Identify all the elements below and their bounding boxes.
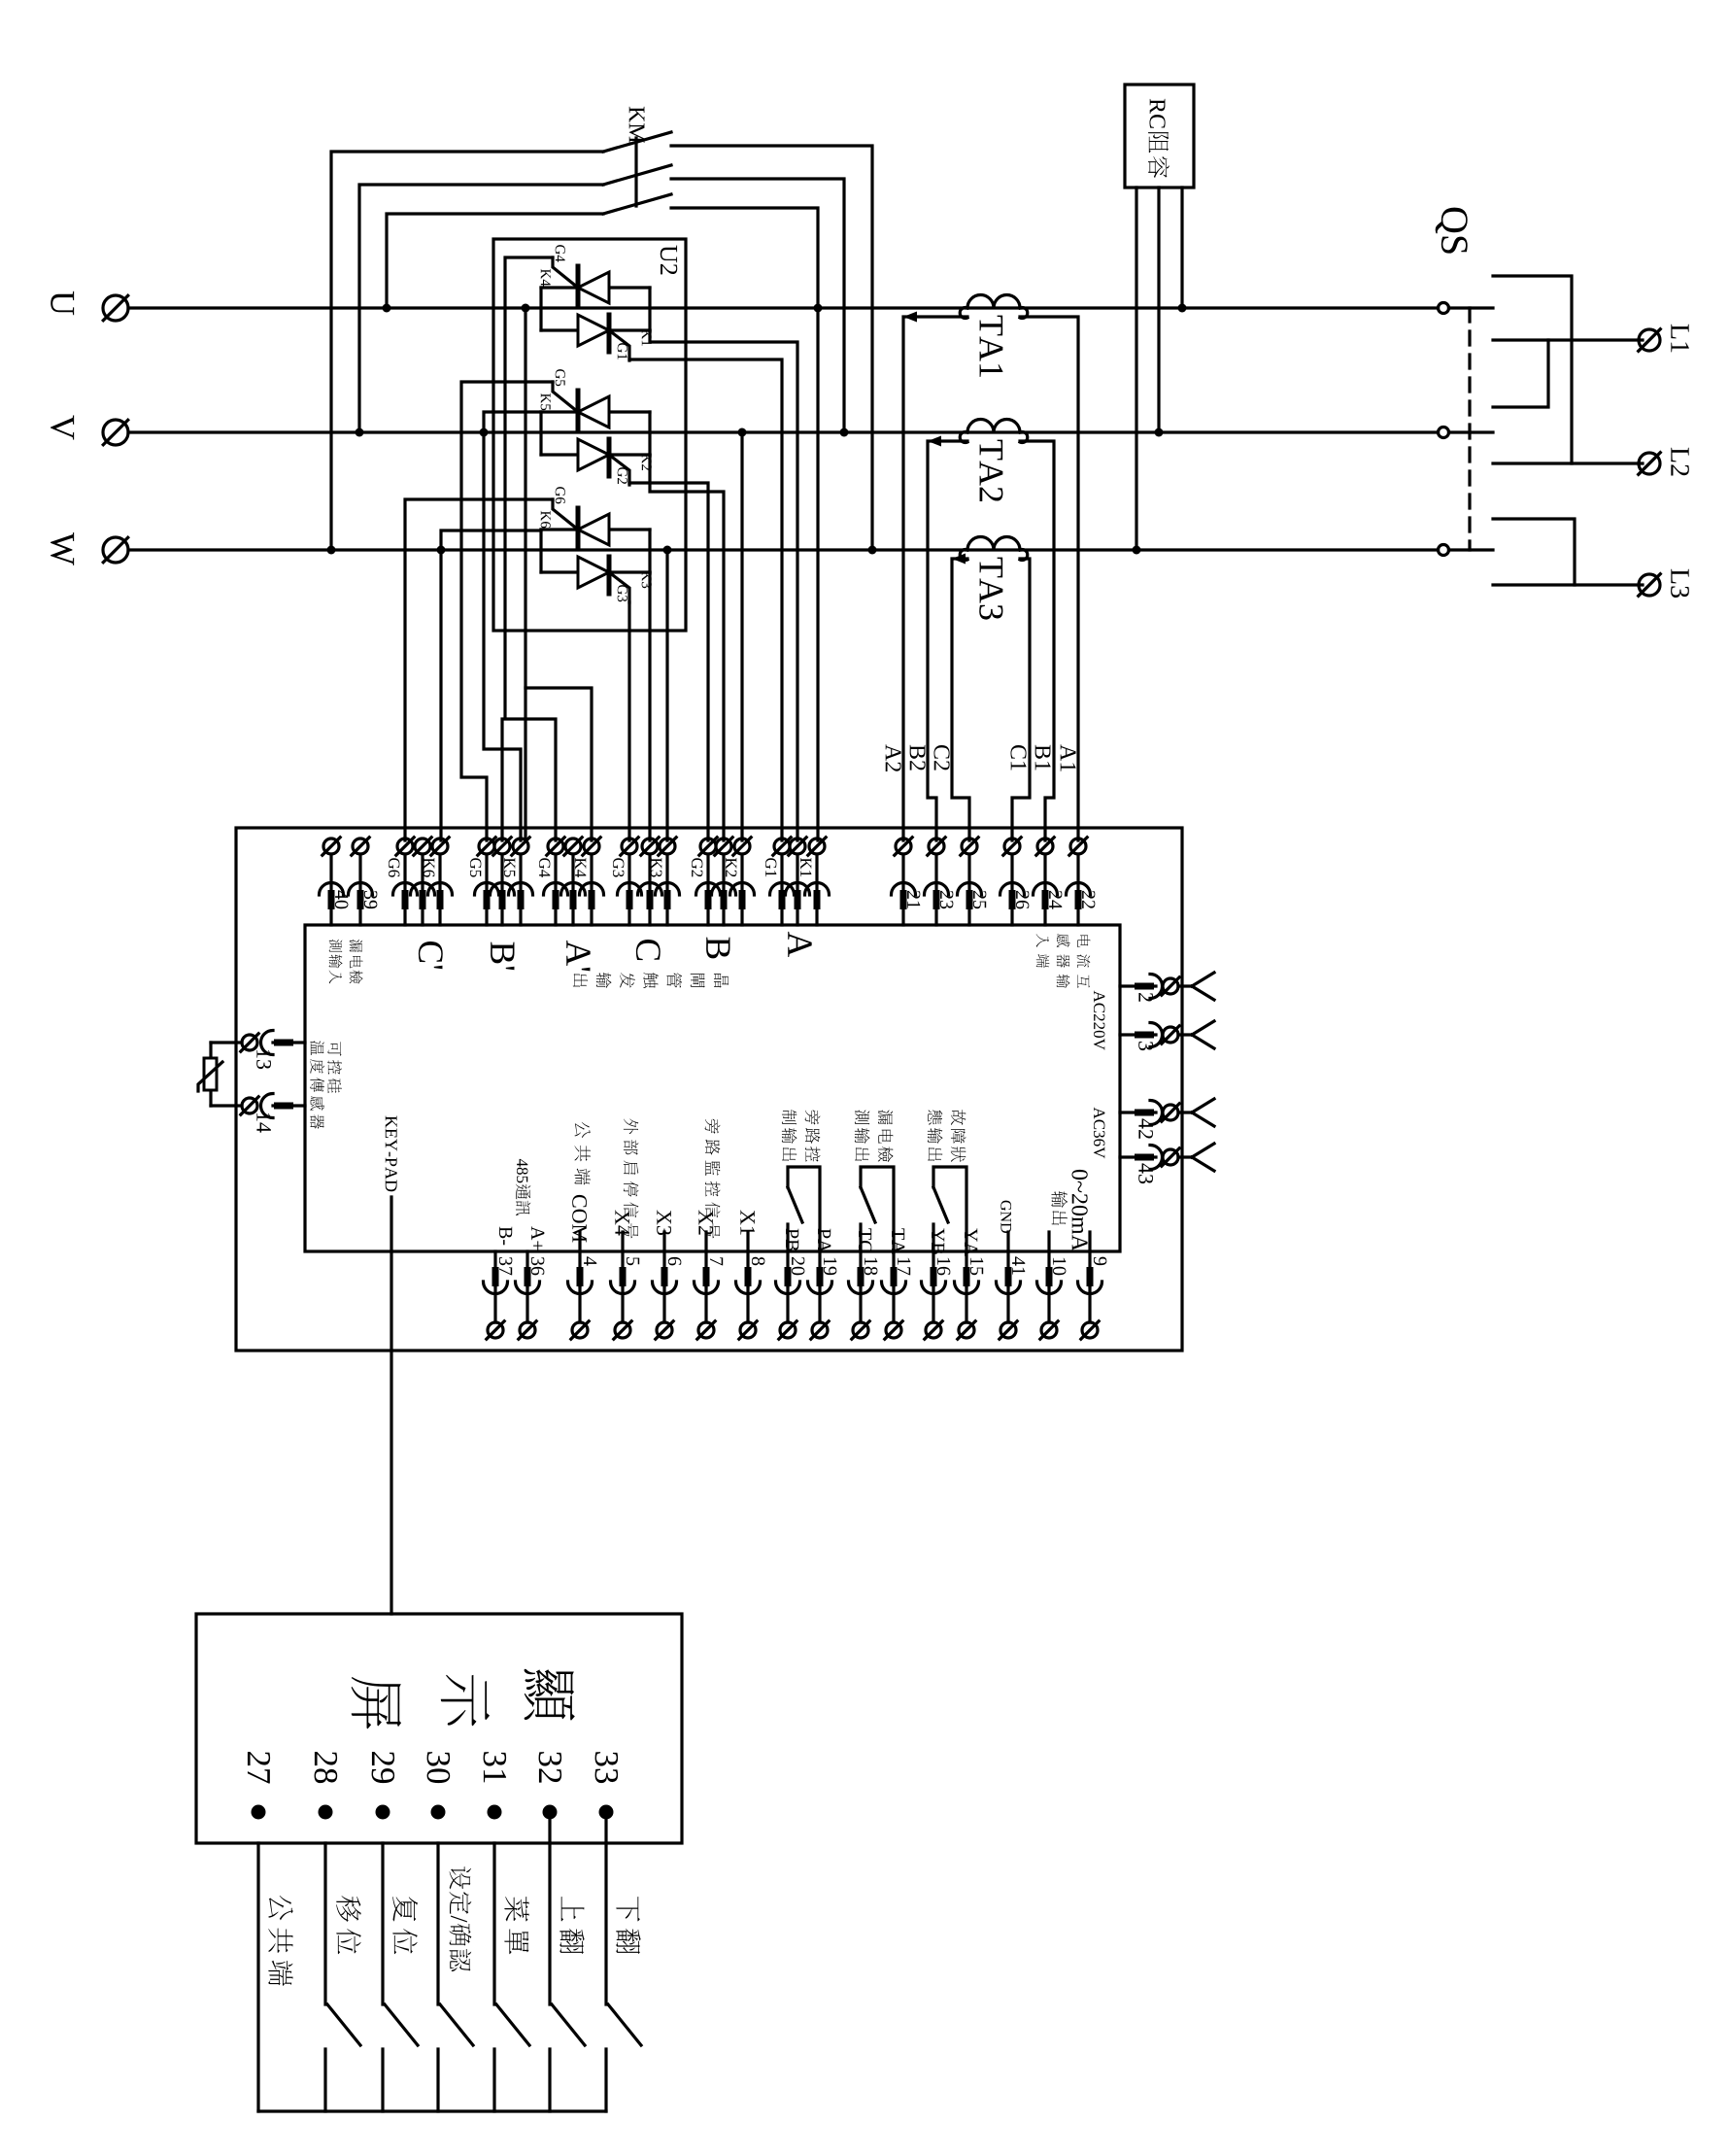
terminal 4 bottom row xyxy=(568,1251,593,1339)
label 15 xyxy=(970,1258,983,1275)
wire L2 xyxy=(1493,462,1643,464)
label 485通讯 xyxy=(516,1159,531,1215)
label V xyxy=(51,415,74,439)
contactor KM pole 1 wire xyxy=(331,152,603,550)
label TA3 xyxy=(979,558,1002,620)
wire button 32 stub xyxy=(548,2049,551,2111)
terminal L1 xyxy=(1639,329,1661,352)
display pin 31 xyxy=(488,1805,502,1820)
label X1 xyxy=(740,1210,755,1234)
label 17 xyxy=(898,1258,910,1276)
label K4 xyxy=(575,858,586,877)
label 23 xyxy=(940,891,953,908)
wire lower thyristor axis xyxy=(541,453,650,456)
label AC220V xyxy=(1094,991,1105,1050)
label 31 xyxy=(484,1752,507,1782)
terminal V xyxy=(103,420,128,445)
thyristor pair rails phase K3 xyxy=(539,530,542,572)
wire K2 tap xyxy=(740,432,743,840)
label X4 xyxy=(615,1210,628,1235)
label 41 xyxy=(1012,1256,1025,1274)
label 28 xyxy=(315,1752,338,1783)
label 显 xyxy=(525,1669,575,1721)
terminal 16 bottom row xyxy=(922,1251,946,1339)
terminal x517 top row xyxy=(491,838,515,925)
switch QS contact pole1 xyxy=(1439,303,1494,314)
thyristor pair rails phase K1 xyxy=(539,288,542,330)
wire G6 to terminal xyxy=(405,499,553,840)
label 33 xyxy=(595,1752,619,1783)
CT TA1 secondary right wire xyxy=(1020,317,1078,840)
contactor KM pole 2 blade xyxy=(603,165,671,185)
label 37 xyxy=(499,1257,512,1275)
terminal 26 top row xyxy=(1000,838,1025,925)
label X2 xyxy=(698,1210,713,1234)
label C2 xyxy=(933,745,949,770)
relay contact YB/YA fault xyxy=(933,1167,966,1251)
gate lead G2 xyxy=(609,455,629,485)
terminal L3 xyxy=(1639,574,1661,597)
label 移位 xyxy=(336,1896,361,1954)
switch QS contact pole3 xyxy=(1439,545,1494,556)
junction RC on V line xyxy=(1155,428,1164,437)
wire stub 9 xyxy=(1088,1232,1091,1251)
label 公共端 xyxy=(574,1122,590,1185)
label G5 xyxy=(470,858,481,876)
gate lead G5 xyxy=(553,382,578,412)
display pin 33 xyxy=(599,1805,614,1820)
display pin 28 xyxy=(319,1805,333,1820)
terminal K4 top row xyxy=(580,838,604,925)
label 32 xyxy=(539,1752,562,1782)
terminal G3 top row xyxy=(618,838,642,925)
wire RC to W xyxy=(1135,188,1137,550)
terminal 13 xyxy=(236,1031,305,1055)
terminal W xyxy=(103,537,128,563)
label G4 xyxy=(539,858,550,877)
switch button 31 blade xyxy=(496,2004,529,2045)
label 可控硅温度传感器 xyxy=(327,1042,342,1093)
terminal 8 bottom row xyxy=(736,1251,761,1339)
label 菜单 xyxy=(504,1897,528,1954)
terminal 19 bottom row xyxy=(808,1251,832,1339)
label X3 xyxy=(657,1210,671,1235)
terminal G2 top row xyxy=(696,838,721,925)
display pin 29 xyxy=(376,1805,390,1820)
gate lead G6 xyxy=(553,499,578,530)
label A' xyxy=(566,941,590,971)
label 上翻 xyxy=(559,1897,584,1954)
display box 显示屏 xyxy=(196,1614,682,1843)
terminal K5 top row xyxy=(509,838,533,925)
label 36 xyxy=(531,1257,544,1275)
terminal 18 bottom row xyxy=(849,1251,873,1339)
wire KEY-PAD to display xyxy=(390,1197,392,1614)
wire stub GND xyxy=(1006,1232,1009,1251)
wire button 29 xyxy=(381,1843,384,2004)
label A xyxy=(788,932,811,957)
wire G1 to terminal xyxy=(629,359,782,840)
label 26 xyxy=(1016,891,1029,909)
terminal G4 top row xyxy=(544,838,568,925)
wire button 31 stub xyxy=(492,2049,495,2111)
display pin 32 xyxy=(543,1805,558,1820)
label AC36V xyxy=(1094,1108,1105,1159)
wire G2 to terminal xyxy=(629,483,708,840)
terminal 17 bottom row xyxy=(882,1251,906,1339)
wire from pin 33 xyxy=(604,1812,607,1843)
wire upper thyristor axis xyxy=(541,410,650,413)
thyristor K4/G4 (reverse) xyxy=(578,266,609,304)
junction K3 on W line xyxy=(663,546,672,555)
wire B' stub to terminal xyxy=(500,719,503,840)
label K6 xyxy=(424,858,434,877)
wire G3 to terminal xyxy=(627,602,630,840)
label 复位 xyxy=(392,1897,418,1954)
label G6 xyxy=(389,858,399,877)
label 20 xyxy=(792,1257,804,1275)
label K3 xyxy=(651,858,661,877)
wire upper thyristor axis xyxy=(541,528,650,530)
label PB xyxy=(786,1229,798,1251)
label G1 xyxy=(765,858,776,876)
label TA xyxy=(892,1228,904,1253)
junction K2 on V line xyxy=(738,428,747,437)
label 21 xyxy=(907,891,920,908)
label A1 xyxy=(1061,744,1076,771)
label 27 xyxy=(248,1752,270,1783)
terminal K2 top row xyxy=(730,838,755,925)
wire K6 from rail xyxy=(441,530,541,840)
label YB xyxy=(932,1228,944,1254)
terminal G6 top row xyxy=(393,838,418,925)
CT TA2 polarity arrow xyxy=(928,436,941,447)
label G5 xyxy=(556,369,565,386)
label GND xyxy=(1000,1201,1011,1233)
wire button 33 xyxy=(604,1843,607,2004)
label C1 xyxy=(1010,745,1026,770)
wire button 28 stub xyxy=(323,2049,326,2111)
label 10 xyxy=(1053,1258,1066,1275)
thyristor K1/G1 (forward) xyxy=(578,315,609,352)
wire K4 tap xyxy=(525,308,592,840)
label G4 xyxy=(556,245,565,261)
label TC xyxy=(859,1228,871,1251)
label B xyxy=(706,938,729,959)
contactor KM pole 3 wire xyxy=(387,214,603,308)
CT TA1 coil end curls xyxy=(960,308,967,319)
junction RC on W line xyxy=(1133,546,1141,555)
wire from pin 32 xyxy=(548,1812,551,1843)
wire upper thyristor axis xyxy=(541,286,650,289)
label L1 xyxy=(1671,325,1688,353)
terminal 23 top row xyxy=(925,838,949,925)
wire phase V line xyxy=(128,430,1439,433)
wire thermistor bus xyxy=(209,1043,212,1106)
switch button 32 blade xyxy=(552,2004,585,2045)
junction KM pole1 right on W xyxy=(868,546,877,555)
label G2 xyxy=(618,467,627,484)
wire button 29 stub xyxy=(381,2049,384,2111)
label YA xyxy=(965,1228,977,1256)
contactor KM pole 1 blade xyxy=(603,132,671,152)
wire button 28 xyxy=(323,1843,326,2004)
label QS xyxy=(1436,208,1468,254)
wire thermistor left 13 xyxy=(211,1041,236,1044)
terminal 9 bottom row xyxy=(1078,1251,1102,1339)
label A+ xyxy=(531,1226,544,1250)
wire G4 to terminal xyxy=(505,257,556,840)
label 示 xyxy=(441,1675,490,1727)
label 30 xyxy=(427,1752,451,1783)
switch QS contact pole2 xyxy=(1439,428,1494,438)
terminal x745 top row xyxy=(712,838,736,925)
terminal 25 top row xyxy=(958,838,982,925)
contactor KM pole 2 wire xyxy=(359,185,603,432)
label K1 xyxy=(642,329,652,346)
label G2 xyxy=(692,858,702,876)
CT TA3 primary coil xyxy=(967,537,1020,551)
wire RC to U xyxy=(1180,188,1183,308)
terminal 20 bottom row xyxy=(776,1251,800,1339)
CT TA3 secondary right wire xyxy=(1012,559,1030,840)
terminal 22 top row xyxy=(1067,838,1091,925)
junction K5 on V line xyxy=(480,428,489,437)
label A2 xyxy=(886,744,901,771)
label 漏电检测输出 xyxy=(878,1110,894,1162)
controller board box xyxy=(305,925,1120,1251)
label 电流互感器输入端 xyxy=(1077,936,1091,988)
CT TA3 polarity arrow xyxy=(952,554,966,565)
switch button 29 blade xyxy=(385,2004,418,2045)
label 43 xyxy=(1138,1163,1153,1183)
terminal 6 bottom row xyxy=(653,1251,677,1339)
wire K3 tap xyxy=(665,550,668,840)
terminal 7 bottom row xyxy=(695,1251,719,1339)
controller outer box xyxy=(236,828,1182,1351)
connector 3 xyxy=(1120,1021,1214,1048)
terminal 40 top row xyxy=(320,838,344,925)
wire RC to V xyxy=(1157,188,1160,432)
label 旁路监控信号 xyxy=(705,1119,721,1239)
junction RC on U line xyxy=(1178,304,1187,313)
label 设定/确认 xyxy=(450,1866,472,1971)
CT TA3 coil end curls xyxy=(960,550,967,561)
terminal K6 top row xyxy=(428,838,453,925)
terminal K1 top row xyxy=(805,838,830,925)
RC snubber box xyxy=(1125,85,1194,188)
gate lead G3 xyxy=(609,572,629,602)
wire thermistor left 14 xyxy=(211,1104,236,1107)
label 4 xyxy=(584,1256,596,1265)
terminal 36 bottom row xyxy=(516,1251,540,1339)
label COM xyxy=(572,1195,587,1243)
wire phase W line xyxy=(128,548,1439,551)
label 14 xyxy=(256,1113,271,1133)
label 漏电检测输入 xyxy=(350,940,363,984)
wire button 30 stub xyxy=(436,2049,439,2111)
label 19 xyxy=(824,1258,836,1275)
wire button 30 xyxy=(436,1843,439,2004)
label C' xyxy=(419,941,443,969)
label 29 xyxy=(372,1752,395,1783)
label 42 xyxy=(1138,1118,1153,1138)
label KEY-PAD xyxy=(386,1116,397,1192)
wire button 32 xyxy=(548,1843,551,2004)
label 13 xyxy=(256,1050,271,1069)
label B' xyxy=(491,942,514,971)
thermistor RT xyxy=(198,1058,222,1091)
label 24 xyxy=(1049,891,1062,909)
label 3 xyxy=(1138,1042,1153,1050)
switch QS linkage dashed xyxy=(1468,308,1471,550)
wire button bus xyxy=(258,2109,606,2112)
contactor KM pole 2 return wire xyxy=(671,179,844,432)
junction KM pole3 right on U xyxy=(814,304,823,313)
switch button 33 blade xyxy=(608,2004,641,2045)
terminal G1 top row xyxy=(770,838,795,925)
label 18 xyxy=(864,1258,877,1275)
CT TA2 secondary right wire xyxy=(1020,441,1054,840)
junction K4 on U line xyxy=(522,304,530,313)
wire button 33 stub xyxy=(604,2049,607,2111)
label 公共端 xyxy=(268,1896,293,1986)
label G6 xyxy=(556,487,565,503)
terminal L2 xyxy=(1639,453,1661,475)
terminal 14 xyxy=(236,1094,305,1118)
label B- xyxy=(499,1227,512,1246)
gate lead G4 xyxy=(553,257,578,288)
wire C mid from rail xyxy=(648,572,651,840)
thyristor module U2 box xyxy=(493,239,686,631)
CT TA1 polarity arrow xyxy=(903,312,917,323)
terminal G5 top row xyxy=(475,838,499,925)
terminal 5 bottom row xyxy=(611,1251,635,1339)
relay contact PB/PA bypass control xyxy=(788,1167,820,1251)
label 7 xyxy=(710,1257,723,1265)
label U2 xyxy=(661,246,677,275)
label TA2 xyxy=(980,440,1003,501)
label K2 xyxy=(642,454,652,470)
junction K6 on W line xyxy=(437,546,446,555)
label B1 xyxy=(1035,745,1051,770)
contactor KM pole 3 return wire / wire K1 xyxy=(671,208,818,840)
wire B mid from rail xyxy=(650,455,724,840)
terminal 21 top row xyxy=(892,838,916,925)
label L3 xyxy=(1671,569,1689,598)
junction KM pole1 left on W xyxy=(327,546,336,555)
label 屏 xyxy=(352,1677,402,1728)
label 外部启停信号 xyxy=(624,1118,639,1238)
connector 2 xyxy=(1120,973,1214,1000)
switch button 28 blade xyxy=(327,2004,360,2045)
gate lead G1 xyxy=(609,330,629,360)
label 22 xyxy=(1082,891,1095,908)
label 8 xyxy=(752,1257,764,1265)
wire stub X1 xyxy=(746,1232,749,1251)
label 旁路控制输出 xyxy=(805,1110,821,1161)
thyristor K5/G5 (reverse) xyxy=(578,391,609,428)
terminal 41 bottom row xyxy=(997,1251,1021,1339)
terminal 39 top row xyxy=(349,838,373,925)
terminal 10 bottom row xyxy=(1037,1251,1062,1339)
label K4 xyxy=(541,269,551,287)
CT TA2 primary coil xyxy=(967,420,1020,433)
wire stub X4 xyxy=(621,1232,624,1251)
CT TA2 secondary left wire xyxy=(928,441,967,840)
display pin 30 xyxy=(431,1805,446,1820)
label 2 xyxy=(1138,993,1153,1002)
terminal K3 top row xyxy=(656,838,680,925)
CT TA2 coil end curls xyxy=(960,431,967,442)
thyristor K6/G6 (reverse) xyxy=(578,508,609,546)
junction KM pole2 left on V xyxy=(356,428,364,437)
terminal 24 top row xyxy=(1034,838,1058,925)
label 故障状态输出 xyxy=(951,1110,966,1162)
label PA xyxy=(818,1229,831,1253)
label 下翻 xyxy=(616,1897,640,1954)
switch QS pole3 upper bracket xyxy=(1493,519,1575,585)
label 16 xyxy=(937,1258,950,1276)
thyristor K3/G3 (forward) xyxy=(578,557,609,594)
switch QS pole1 upper bracket xyxy=(1493,276,1572,463)
label 40 xyxy=(335,890,348,908)
label K5 xyxy=(504,858,515,877)
wire lower thyristor axis xyxy=(541,570,650,573)
wire L3 xyxy=(1493,583,1643,586)
label 25 xyxy=(973,891,986,908)
wire button common 27 xyxy=(256,1843,259,2111)
label K1 xyxy=(800,858,811,876)
wire stub X2 xyxy=(704,1232,707,1251)
thyristor K2/G2 (forward) xyxy=(578,439,609,476)
display pin 27 xyxy=(252,1805,266,1820)
wire L1 xyxy=(1493,338,1643,341)
thyristor pair rails phase K2 xyxy=(539,412,542,455)
wire K4 stub down xyxy=(524,688,526,838)
label K6 xyxy=(541,511,551,528)
terminal x821 top row xyxy=(786,838,810,925)
terminal U xyxy=(103,295,128,321)
label TA1 xyxy=(980,316,1003,377)
wire lower thyristor axis xyxy=(541,328,650,331)
label G3 xyxy=(618,585,627,601)
contactor KM pole 3 blade xyxy=(603,194,671,214)
contactor KM linkage xyxy=(634,138,637,206)
switch button 30 blade xyxy=(440,2004,473,2045)
label U xyxy=(51,291,74,315)
label 39 xyxy=(364,891,377,908)
wire A mid from rail xyxy=(650,330,797,840)
label 0~20mA输出 xyxy=(1071,1170,1087,1251)
wire stub COM xyxy=(578,1232,581,1251)
label G3 xyxy=(613,858,624,876)
label 5 xyxy=(627,1257,639,1265)
label RC阻容 xyxy=(1148,99,1170,178)
terminal 15 bottom row xyxy=(955,1251,979,1339)
label K5 xyxy=(541,394,551,410)
label L2 xyxy=(1671,448,1689,476)
terminal x669 top row xyxy=(638,838,662,925)
label 6 xyxy=(668,1257,681,1266)
contactor KM pole 1 return wire xyxy=(671,146,872,550)
label G1 xyxy=(618,343,627,359)
wire button 31 xyxy=(492,1843,495,2004)
connector 43 xyxy=(1120,1144,1214,1171)
wire stub 10 xyxy=(1047,1232,1050,1251)
terminal 37 bottom row xyxy=(484,1251,508,1339)
junction KM pole3 left on U xyxy=(383,304,391,313)
